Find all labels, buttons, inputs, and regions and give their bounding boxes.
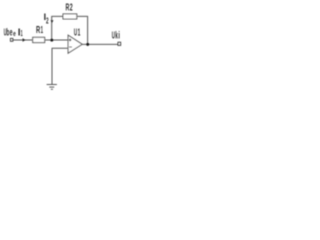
svg-text:i: i	[118, 31, 120, 42]
svg-text:2: 2	[46, 17, 49, 26]
svg-text:1: 1	[21, 29, 23, 38]
svg-text:e: e	[13, 31, 16, 38]
svg-text:1: 1	[78, 27, 81, 38]
svg-text:1: 1	[41, 25, 44, 36]
svg-text:2: 2	[70, 2, 73, 13]
